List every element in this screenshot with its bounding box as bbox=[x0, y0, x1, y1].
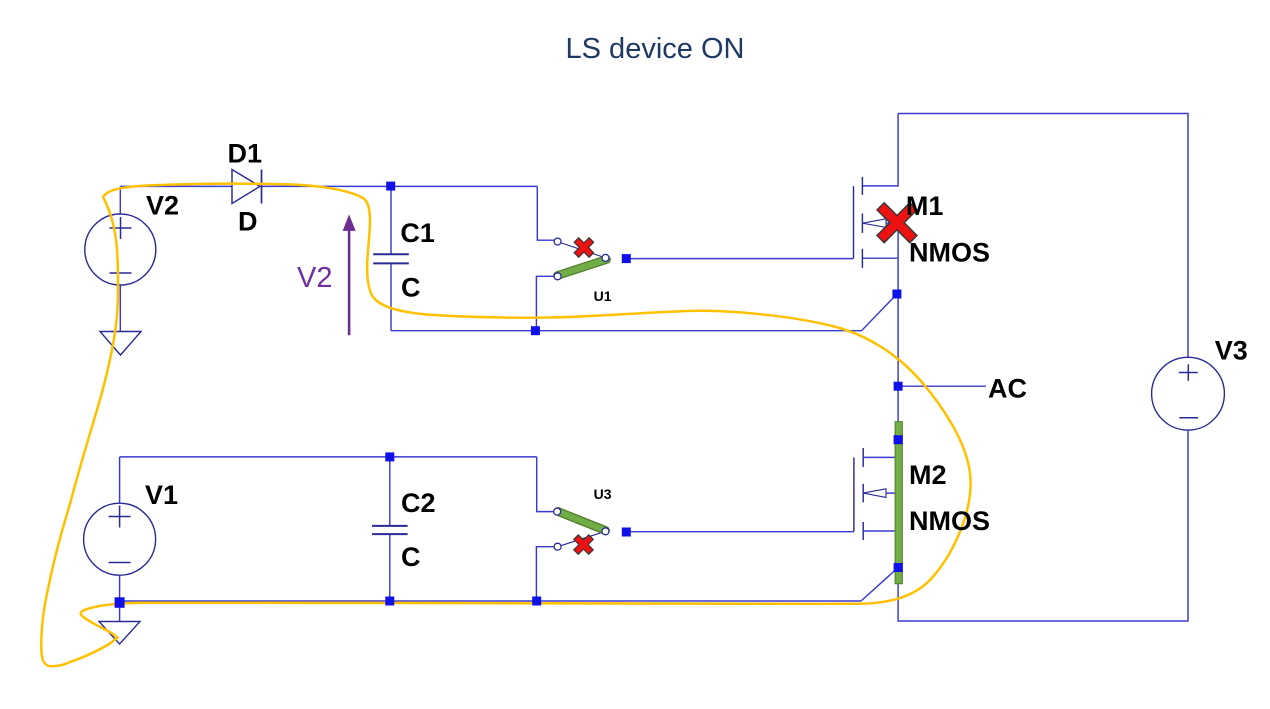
svg-text:C: C bbox=[401, 542, 421, 572]
svg-text:D1: D1 bbox=[228, 139, 263, 169]
svg-text:V2: V2 bbox=[297, 262, 332, 294]
svg-text:LS device ON: LS device ON bbox=[566, 33, 745, 65]
svg-text:D: D bbox=[238, 207, 258, 237]
svg-text:M2: M2 bbox=[909, 460, 947, 490]
svg-text:V1: V1 bbox=[145, 480, 178, 510]
svg-text:V3: V3 bbox=[1215, 336, 1248, 366]
svg-text:AC: AC bbox=[988, 374, 1027, 404]
svg-text:V2: V2 bbox=[146, 191, 179, 221]
svg-text:C: C bbox=[401, 273, 421, 303]
svg-text:C1: C1 bbox=[400, 218, 435, 248]
svg-text:NMOS: NMOS bbox=[909, 506, 990, 536]
svg-text:U1: U1 bbox=[594, 288, 612, 304]
svg-text:U3: U3 bbox=[594, 486, 612, 502]
svg-text:C2: C2 bbox=[401, 488, 436, 518]
svg-text:M1: M1 bbox=[906, 191, 944, 221]
svg-text:NMOS: NMOS bbox=[909, 238, 990, 268]
